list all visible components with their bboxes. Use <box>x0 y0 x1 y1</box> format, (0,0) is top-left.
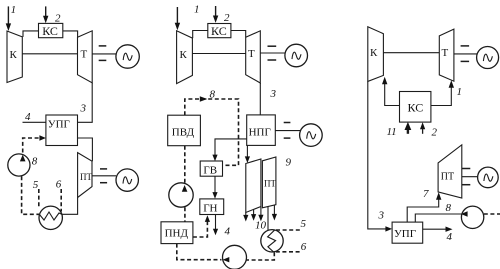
dashed wire pump to PND <box>184 207 186 222</box>
dashed wire PVD to pump <box>184 146 186 184</box>
dashed wire condenser to pump N3 <box>246 252 274 260</box>
svg-text:6: 6 <box>56 179 62 191</box>
extraction arrow b <box>251 209 256 220</box>
wire KS to T with arrow <box>431 80 454 105</box>
svg-text:ПТ: ПТ <box>441 172 454 183</box>
compressor K <box>177 31 193 84</box>
arrow 2 (fuel) <box>43 6 48 23</box>
arrowhead into GV <box>212 155 217 162</box>
svg-text:К: К <box>370 47 378 59</box>
wire 4 (gas out) <box>23 121 46 123</box>
steam generator NPG <box>247 115 276 145</box>
svg-text:8: 8 <box>210 89 216 101</box>
svg-text:4: 4 <box>25 111 31 123</box>
shaft T-generator <box>260 52 285 54</box>
generator G4 <box>300 124 323 147</box>
shaft K-T <box>22 53 77 55</box>
svg-text:5: 5 <box>33 179 39 191</box>
svg-text:3: 3 <box>270 88 277 100</box>
svg-text:К: К <box>10 49 18 61</box>
extraction arrow d <box>272 205 277 221</box>
arrowhead into GN bottom <box>205 215 210 222</box>
generator G4 sine symbol <box>307 132 316 139</box>
wire PT exhaust to heat exchanger <box>62 198 77 215</box>
pump N2 arrow <box>182 185 188 192</box>
wire KS to T <box>231 31 246 38</box>
generator G6 sine symbol <box>484 174 493 181</box>
turbine PT section 1 <box>246 159 261 213</box>
wire K to KS <box>23 31 39 37</box>
exciter dash bottom <box>284 137 291 139</box>
svg-text:11: 11 <box>387 126 397 138</box>
svg-text:ПТ: ПТ <box>264 179 276 189</box>
svg-text:1: 1 <box>194 4 200 16</box>
pump N4 <box>461 206 483 228</box>
pump N3 <box>223 245 247 269</box>
svg-text:КС: КС <box>408 101 424 115</box>
heater PND <box>161 222 193 244</box>
condenser zigzag <box>268 230 276 252</box>
dashed wire into pump <box>484 213 500 215</box>
svg-text:ГН: ГН <box>203 203 217 215</box>
svg-text:ПВД: ПВД <box>172 127 195 139</box>
combustion chamber KS <box>39 23 63 37</box>
fuel arrow 2 <box>420 122 425 134</box>
wire 4 with arrow (heat output) <box>213 215 218 236</box>
wire 7: UPG steam to PT with arrow <box>407 192 441 222</box>
svg-text:КС: КС <box>42 24 58 38</box>
svg-text:10: 10 <box>255 220 267 232</box>
wire T exhaust to UPG <box>78 83 93 123</box>
svg-text:1: 1 <box>457 86 463 98</box>
svg-text:Т: Т <box>248 48 255 60</box>
arrowhead on dashed wire 8 <box>200 96 208 102</box>
dashed wire 5 <box>276 229 301 231</box>
svg-text:5: 5 <box>301 218 307 230</box>
exciter dash bottom <box>461 60 470 62</box>
steam turbine PT <box>78 153 92 198</box>
generator G6 <box>478 167 499 188</box>
exciter dash top <box>461 45 470 47</box>
generator G2 <box>116 169 138 191</box>
pump N1 arrow <box>20 155 26 162</box>
wire KS to T <box>63 31 78 37</box>
compressor K <box>7 31 22 83</box>
svg-text:К: К <box>180 49 188 61</box>
heater GN <box>200 199 224 215</box>
turbine PT section 2 <box>262 157 276 208</box>
arrowhead into UPG <box>385 226 392 231</box>
wire turbine exhaust to condenser <box>267 206 269 230</box>
wire 8: pump to UPG <box>415 214 461 222</box>
pump N1 <box>8 154 30 176</box>
combustion chamber KS <box>400 92 431 123</box>
svg-text:6: 6 <box>301 241 307 253</box>
svg-text:1: 1 <box>11 4 17 16</box>
svg-text:Т: Т <box>81 49 88 61</box>
compressor K <box>368 27 384 82</box>
exciter dash bottom <box>100 182 107 184</box>
dashed wire 8 PVD to GV <box>185 99 239 165</box>
fuel arrow 11 (bold) <box>405 122 412 134</box>
svg-text:Т: Т <box>442 47 449 59</box>
arrowhead NPG to turbine <box>245 145 250 163</box>
extraction arrow a <box>243 213 248 222</box>
generator G5 <box>477 47 499 69</box>
arrowhead out of pump N3 <box>223 257 230 262</box>
generator G1 sine symbol <box>123 53 132 60</box>
wire NPG to GV heater <box>215 139 247 157</box>
svg-text:7: 7 <box>423 188 429 200</box>
arrow 1 (air inlet) <box>6 6 11 31</box>
exciter dash top <box>268 45 277 47</box>
generator G5 sine symbol <box>483 54 492 61</box>
shaft PT-generator <box>462 176 478 178</box>
condenser (heat exchanger) <box>261 230 283 252</box>
heat exchanger (network heater) <box>39 206 62 229</box>
exciter dash bottom <box>462 184 471 186</box>
svg-text:УПГ: УПГ <box>48 119 70 131</box>
svg-text:КС: КС <box>211 24 227 38</box>
steam generator UPG <box>392 222 423 243</box>
svg-text:3: 3 <box>378 210 385 222</box>
feedwater arrowhead into UPG <box>39 135 46 141</box>
exciter dash top <box>99 45 107 47</box>
turbine T <box>78 31 93 83</box>
svg-text:2: 2 <box>432 127 438 139</box>
heater PVD <box>168 115 201 146</box>
steam turbine PT <box>438 145 462 198</box>
turbine T <box>439 29 454 81</box>
dashed wire pump to UPG <box>23 138 40 153</box>
dashed wire 6 (network water supply) <box>60 189 62 212</box>
shaft PT-generator <box>92 175 116 177</box>
wire T exhaust to NPG <box>259 83 261 115</box>
generator G2 sine symbol <box>123 177 132 184</box>
svg-text:4: 4 <box>447 231 453 243</box>
wire KS to K with arrow <box>382 77 400 106</box>
dashed wire heat exchanger to pump <box>22 176 39 214</box>
arrow 1 (air inlet) <box>175 7 180 30</box>
svg-text:8: 8 <box>32 156 38 168</box>
dashed wire 5 (network water return) <box>38 189 40 207</box>
svg-text:ПНД: ПНД <box>165 228 189 240</box>
exciter dash top <box>100 168 107 170</box>
dashed wire PND to condensate pump <box>177 244 222 260</box>
generator G3 <box>285 44 308 67</box>
svg-text:ПТ: ПТ <box>80 172 92 182</box>
heater zigzag <box>40 212 63 220</box>
shaft K-T <box>192 53 245 55</box>
exciter dash bottom <box>268 59 277 61</box>
shaft K-T <box>383 52 439 54</box>
dashed wire PND to GN <box>193 221 208 237</box>
generator G1 <box>116 45 139 68</box>
exciter dash top <box>462 168 471 170</box>
heater GV <box>200 161 222 176</box>
svg-text:9: 9 <box>286 157 292 169</box>
svg-text:УПГ: УПГ <box>394 228 416 240</box>
wire 3: K down to UPG <box>368 81 386 229</box>
pump N2 <box>169 183 193 207</box>
svg-text:ГВ: ГВ <box>203 165 217 177</box>
shaft T-generator <box>454 53 477 55</box>
wire 4 out of UPG with arrow <box>423 227 453 232</box>
exciter dash top <box>284 122 291 124</box>
dashed wire 6 <box>276 251 301 253</box>
svg-text:8: 8 <box>446 202 452 214</box>
svg-text:НПГ: НПГ <box>249 127 271 139</box>
combustion chamber KS <box>208 24 231 38</box>
shaft T-generator <box>92 53 116 55</box>
steam generator UPG <box>46 115 78 146</box>
svg-text:4: 4 <box>225 226 231 238</box>
wire GV to GN with arrow <box>212 176 217 199</box>
wire UPG steam to PT <box>78 138 93 161</box>
generator G3 sine symbol <box>292 52 301 59</box>
turbine T <box>246 31 261 83</box>
extraction arrow c <box>258 207 263 222</box>
svg-text:3: 3 <box>80 103 87 115</box>
wire K to KS <box>193 31 208 39</box>
arrowhead out of pump <box>461 211 468 216</box>
arrow 2 (fuel) <box>213 6 218 23</box>
exciter dash bottom <box>99 59 107 61</box>
svg-text:2: 2 <box>55 13 61 25</box>
shaft NPG-generator <box>275 130 300 132</box>
svg-text:2: 2 <box>224 12 230 24</box>
